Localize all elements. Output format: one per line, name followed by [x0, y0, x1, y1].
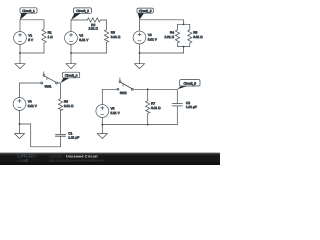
svg-text:SW2: SW2	[120, 91, 127, 95]
footer bar	[0, 153, 220, 165]
wire top-left c4	[20, 82, 41, 84]
wire bottom c2	[71, 52, 107, 54]
wire bottom c5	[102, 124, 177, 126]
svg-text:5.01 V: 5.01 V	[28, 104, 38, 108]
wire v5 top riser	[101, 89, 103, 104]
svg-text:—≡LAB: —≡LAB	[17, 158, 29, 163]
wire top c5	[133, 88, 177, 90]
wire bottom c1	[20, 52, 44, 54]
node junction c5	[101, 124, 103, 126]
switch SW2	[117, 78, 133, 95]
wire left-top c2	[70, 20, 72, 32]
resistor R5	[188, 30, 204, 43]
voltage source V1	[14, 32, 34, 45]
voltage source V4	[13, 98, 38, 111]
resistor R6	[58, 99, 74, 111]
resistor R4	[165, 30, 180, 43]
wire r5 top stub	[189, 24, 191, 30]
wire bus drop c3	[183, 47, 185, 53]
label flag Circuit_1	[20, 8, 37, 20]
wire v4 bottom	[19, 110, 21, 124]
wire sw1 to junction	[58, 82, 61, 84]
ground c2	[66, 53, 76, 69]
svg-text:Circuit_2: Circuit_2	[76, 9, 89, 13]
svg-text:Circuit_1: Circuit_1	[22, 9, 35, 13]
svg-text:R7: R7	[151, 102, 155, 106]
voltage source V5	[96, 105, 121, 118]
wire junction to riser c4	[20, 123, 31, 125]
wire right-bottom c2	[106, 43, 108, 54]
wire left-bottom c2	[70, 44, 72, 53]
svg-text:6.01 Ω: 6.01 Ω	[64, 104, 74, 108]
wire r4 top stub	[177, 24, 179, 30]
svg-text:V5: V5	[111, 106, 115, 110]
wire r7 bottom stub	[147, 113, 149, 124]
ground c3	[135, 53, 145, 69]
svg-text:Circuit_3: Circuit_3	[139, 9, 152, 13]
svg-text:6.01 Ω: 6.01 Ω	[151, 106, 161, 110]
svg-text:Circuit_5: Circuit_5	[184, 82, 197, 86]
wire c2 bottom stub	[176, 106, 178, 125]
node top bus c3	[183, 23, 185, 25]
wire right-top c2	[106, 20, 108, 30]
wire bottom c3	[140, 52, 184, 54]
wire drop c4	[60, 83, 62, 99]
svg-text:2.01 Ω: 2.01 Ω	[88, 26, 98, 30]
capacitor C2	[172, 101, 197, 109]
wire left-bottom c3	[139, 44, 141, 53]
resistor R1	[42, 29, 53, 43]
capacitor C1	[55, 131, 79, 139]
wire left-bottom c1	[19, 44, 21, 53]
svg-text:3.01 Ω: 3.01 Ω	[111, 35, 121, 39]
node junction c1	[19, 52, 21, 54]
wire r4 bottom stub	[177, 43, 179, 47]
svg-text:R1: R1	[48, 30, 52, 34]
wire drop c3	[183, 20, 185, 25]
wire left-top c3	[139, 20, 141, 31]
wire c1 bottom drop	[60, 136, 62, 147]
svg-text:V3: V3	[148, 33, 152, 37]
wire top-right c2	[100, 19, 106, 21]
svg-text:1.01 µF: 1.01 µF	[68, 136, 79, 140]
svg-text:5.01 V: 5.01 V	[79, 38, 89, 42]
resistor R7	[146, 101, 162, 114]
resistor R2	[87, 18, 100, 31]
svg-text:1 Ω: 1 Ω	[48, 35, 54, 39]
wire right-bottom c1	[43, 43, 45, 53]
resistor R3	[104, 30, 120, 43]
svg-text:V2: V2	[79, 33, 83, 37]
wire top c1	[20, 19, 44, 21]
svg-text:5.01 V: 5.01 V	[111, 111, 121, 115]
label flag Circuit_4	[61, 72, 80, 83]
svg-text:R6: R6	[64, 100, 68, 104]
wire r5 bottom stub	[189, 43, 191, 47]
svg-text:1.01 µF: 1.01 µF	[186, 105, 197, 109]
label flag Circuit_2	[71, 8, 92, 20]
ground c4	[15, 124, 25, 139]
node junction c3	[139, 52, 141, 54]
svg-text:R3: R3	[111, 30, 115, 34]
wire top c3	[140, 19, 184, 21]
wire top bus c3	[178, 23, 190, 25]
label flag Circuit_3	[137, 8, 153, 20]
svg-text:V1: V1	[28, 33, 32, 37]
voltage source V3	[133, 31, 158, 44]
ground c1	[15, 53, 25, 69]
wire right-top c1	[43, 20, 45, 29]
svg-text:http://circuitlab.com/c/9ms3d9: http://circuitlab.com/c/9ms3d9tk4u6s	[50, 159, 105, 163]
svg-text:5.01 V: 5.01 V	[148, 38, 158, 42]
wire v4 top	[19, 83, 21, 98]
node r7 top	[147, 88, 149, 90]
wire left-top c1	[19, 20, 21, 32]
wire v5 bottom	[101, 117, 103, 124]
wire bottom riser c4	[30, 124, 32, 147]
wire bottom bus c3	[178, 46, 190, 48]
node junction c2	[70, 52, 72, 54]
node junction c4	[19, 123, 21, 125]
wire r7 top stub	[147, 89, 149, 100]
switch SW1	[41, 72, 58, 89]
voltage source V2	[65, 32, 90, 45]
wire top-left c5	[102, 88, 117, 90]
wire bottom c4	[31, 146, 61, 148]
circuitlab logo	[17, 153, 36, 160]
label flag Circuit_5	[177, 80, 200, 90]
svg-text:SW1: SW1	[45, 85, 52, 89]
svg-text:Circuit_4: Circuit_4	[65, 74, 78, 78]
wire r6 to c1	[60, 111, 62, 135]
svg-text:2.01 Ω: 2.01 Ω	[165, 35, 175, 39]
wire top-left c2	[71, 19, 87, 21]
ground c5	[97, 125, 107, 139]
node r7 bottom	[147, 124, 149, 126]
wire c2 top stub	[176, 89, 178, 103]
node bottom bus c3	[183, 46, 185, 48]
svg-text:3.01 Ω: 3.01 Ω	[193, 35, 203, 39]
svg-text:V4: V4	[28, 99, 32, 103]
